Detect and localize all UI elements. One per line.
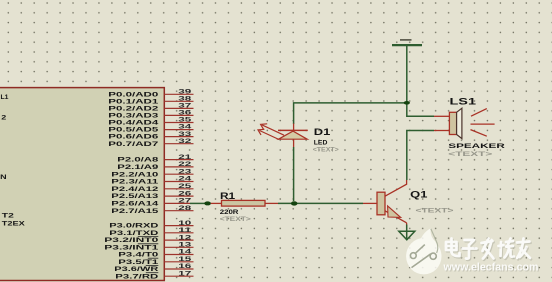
svg-text:10: 10	[178, 219, 192, 226]
svg-text:SPEAKER: SPEAKER	[448, 142, 505, 149]
svg-text:<TEXT>: <TEXT>	[416, 207, 455, 214]
svg-text:D1: D1	[314, 128, 331, 138]
svg-text:38: 38	[178, 95, 192, 102]
svg-text:P0.7/AD7: P0.7/AD7	[108, 139, 158, 147]
svg-text:Q1: Q1	[410, 190, 428, 200]
svg-text:2: 2	[1, 113, 6, 121]
svg-text:<TEXT>: <TEXT>	[313, 146, 339, 153]
svg-text:T2: T2	[2, 211, 14, 219]
svg-text:35: 35	[178, 116, 192, 123]
svg-text:R1: R1	[220, 192, 236, 202]
svg-text:39: 39	[178, 88, 192, 95]
svg-text:13: 13	[178, 241, 192, 248]
svg-text:17: 17	[178, 270, 192, 277]
svg-text:28: 28	[178, 204, 192, 211]
svg-text:21: 21	[178, 153, 192, 160]
svg-text:<TEXT>: <TEXT>	[220, 215, 251, 222]
svg-text:T2EX: T2EX	[2, 219, 25, 227]
svg-text:16: 16	[178, 263, 192, 270]
svg-text:22: 22	[178, 161, 192, 168]
svg-text:N: N	[0, 172, 7, 180]
svg-text:25: 25	[178, 182, 192, 189]
svg-text:27: 27	[178, 197, 192, 204]
svg-text:L1: L1	[1, 92, 9, 100]
svg-text:12: 12	[178, 234, 192, 241]
svg-text:26: 26	[178, 190, 192, 197]
svg-text:37: 37	[178, 102, 192, 109]
svg-text:14: 14	[178, 248, 192, 255]
svg-text:23: 23	[178, 168, 192, 175]
svg-text:15: 15	[178, 255, 192, 262]
svg-text:P2.7/A15: P2.7/A15	[111, 206, 158, 214]
svg-text:34: 34	[178, 123, 192, 130]
svg-text:P3.7/RD: P3.7/RD	[115, 272, 158, 280]
svg-text:11: 11	[178, 226, 192, 233]
svg-text:33: 33	[178, 130, 192, 137]
svg-text:24: 24	[178, 175, 192, 182]
svg-text:www.elecfans.com: www.elecfans.com	[443, 262, 539, 273]
svg-text:<TEXT>: <TEXT>	[448, 150, 493, 157]
svg-text:LS1: LS1	[450, 97, 477, 107]
svg-text:32: 32	[178, 137, 192, 144]
svg-text:36: 36	[178, 109, 192, 116]
